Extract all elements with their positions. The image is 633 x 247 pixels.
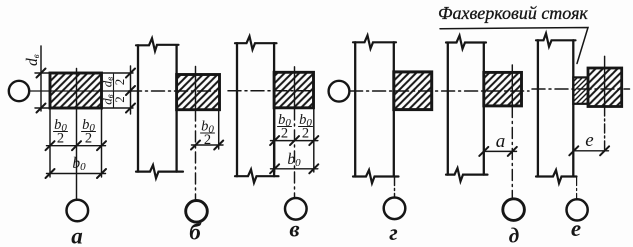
svg-text:е: е <box>571 216 581 241</box>
wall v left edge <box>236 43 238 176</box>
wall b left edge <box>137 45 139 171</box>
node circle b-bottom <box>186 201 208 223</box>
column section g <box>394 72 432 110</box>
axis stub e-bottom <box>576 178 578 200</box>
svg-text:e: e <box>585 130 593 151</box>
wall b bottom with break <box>136 165 183 178</box>
axis vline b <box>195 67 197 111</box>
node circle A-left <box>9 81 29 101</box>
wall g top with break <box>353 35 396 48</box>
dimension line dv/2 right <box>130 66 132 114</box>
svg-text:Фахверковий стояк: Фахверковий стояк <box>438 3 588 23</box>
svg-text:2: 2 <box>281 126 288 142</box>
svg-text:2: 2 <box>302 126 309 142</box>
centerline e <box>532 88 630 90</box>
wall e right edge <box>572 40 574 176</box>
svg-text:2: 2 <box>57 131 64 147</box>
wall v bottom with break <box>235 170 279 183</box>
dim line a <box>484 150 517 152</box>
extension line b <box>218 110 220 149</box>
svg-text:2: 2 <box>112 96 127 103</box>
centerline v <box>228 90 314 92</box>
centerline g-d <box>350 90 529 92</box>
dim line b0/2 v <box>271 140 318 142</box>
dim line b0/2 a <box>47 145 106 147</box>
svg-text:2: 2 <box>112 79 127 86</box>
dim line b0 v <box>271 168 318 170</box>
column section d <box>484 72 522 106</box>
centerline b <box>129 90 220 92</box>
wall b right edge <box>175 45 177 171</box>
wall g right edge <box>393 42 395 176</box>
svg-text:д: д <box>509 224 519 247</box>
node circle g-left <box>329 81 350 102</box>
axis vline d <box>511 65 513 107</box>
leader underline <box>440 28 588 64</box>
wall e bottom with break <box>536 170 577 183</box>
svg-text:2: 2 <box>85 131 92 147</box>
axis vline e <box>604 56 606 107</box>
wall b top with break <box>136 38 179 51</box>
label b0/2 v-left <box>278 112 292 142</box>
wall v top with break <box>235 36 277 49</box>
extension lines below v <box>275 108 314 172</box>
extension lines below a <box>50 108 102 177</box>
svg-text:в: в <box>289 217 299 242</box>
axis vline v <box>294 67 296 109</box>
dim line e <box>574 150 609 152</box>
wall e left edge <box>537 40 539 176</box>
extension lines right a <box>102 73 134 108</box>
label b0/2 v-right <box>299 112 313 142</box>
wall g bottom with break <box>353 170 399 183</box>
column section a <box>50 73 102 108</box>
wall v right edge <box>273 43 275 176</box>
column section b <box>177 75 220 110</box>
svg-text:а: а <box>71 224 83 247</box>
svg-text:2: 2 <box>204 132 211 148</box>
wall d top with break <box>446 36 486 49</box>
label dv/2 upper <box>100 74 128 90</box>
dimension dv vertical <box>40 46 42 111</box>
wall e top with break <box>536 33 576 46</box>
axis vline a <box>76 69 78 200</box>
label b0/2 left <box>54 117 68 147</box>
wire centerline a <box>29 90 131 92</box>
node circle d-bottom <box>503 199 525 221</box>
wall g left edge <box>354 42 356 176</box>
svg-text:б: б <box>189 220 202 245</box>
fachwerk post section e <box>588 68 622 107</box>
node circle g-bottom <box>384 198 406 220</box>
wall d left edge <box>447 43 449 175</box>
node circle v-bottom <box>285 198 307 220</box>
dim line b0 a <box>47 173 106 175</box>
node circle e-bottom <box>567 199 588 220</box>
label b0/2 b <box>201 119 215 149</box>
wall d right edge <box>483 43 485 175</box>
svg-text:a: a <box>496 131 506 152</box>
svg-text:г: г <box>389 220 398 245</box>
label b0/2 right <box>82 117 96 147</box>
axis below g <box>394 177 396 198</box>
label dv/2 lower <box>100 92 128 108</box>
column section v <box>274 72 313 108</box>
corbel bracket e <box>573 77 588 103</box>
dim line b0/2 b <box>192 144 224 146</box>
wall d bottom with break <box>446 168 488 181</box>
node circle a-bottom <box>67 200 89 222</box>
